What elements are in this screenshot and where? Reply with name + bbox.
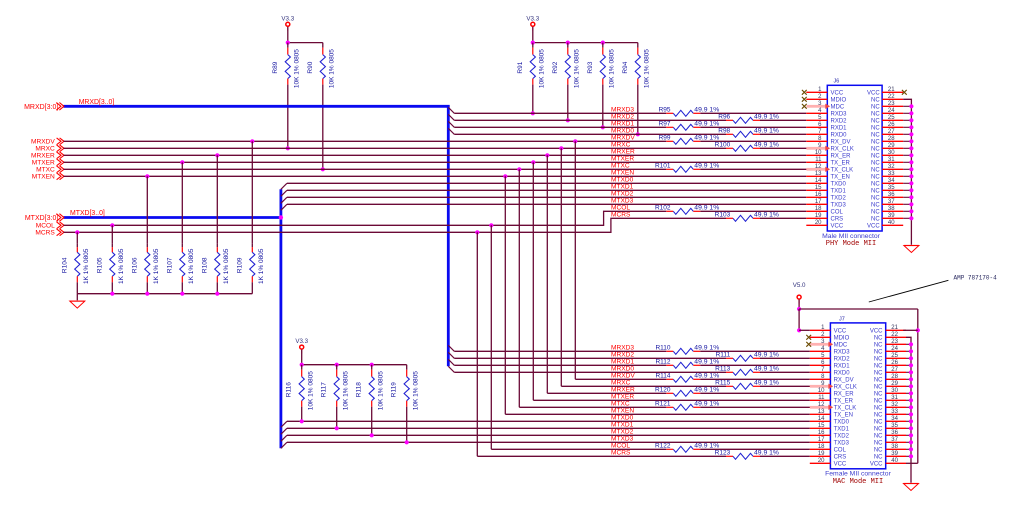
wire MRXDV row (64, 140, 667, 142)
wire NC join (J7) (906, 371, 911, 373)
wire NC join (903, 147, 911, 149)
junction (601, 41, 605, 45)
no-connect X pin3 (J7) (806, 342, 811, 347)
wire MRXD row pin6 (J7) (cont) (700, 364, 810, 366)
svg-text:TX_ER: TX_ER (834, 398, 854, 404)
wire NC join (J7) (906, 448, 911, 450)
wire MTXD row pin15 (287, 189, 806, 191)
resistor R105 (96, 243, 125, 284)
svg-text:10K 1% 0805: 10K 1% 0805 (328, 49, 335, 88)
svg-text:MRXD3: MRXD3 (611, 107, 634, 114)
svg-text:32: 32 (888, 164, 895, 170)
svg-text:NC: NC (871, 132, 880, 138)
svg-text:RXD3: RXD3 (834, 349, 851, 355)
wire MRXD row pin7 (454, 133, 726, 135)
svg-text:MRXC: MRXC (35, 146, 55, 153)
svg-text:RXD0: RXD0 (831, 132, 848, 138)
resistor R118 (356, 365, 385, 411)
svg-text:13: 13 (818, 409, 825, 415)
wire MRXD row pin4 (454, 112, 666, 114)
bus entry (281, 435, 287, 441)
svg-text:MDIO: MDIO (831, 97, 847, 103)
junction (909, 398, 913, 402)
svg-text:VCC: VCC (867, 223, 880, 229)
resistor R110 (655, 345, 719, 355)
junction (215, 153, 219, 157)
svg-text:RXD0: RXD0 (834, 370, 851, 376)
wire NC join (903, 168, 911, 170)
svg-text:R105: R105 (96, 257, 103, 273)
svg-text:J7: J7 (839, 317, 845, 323)
svg-text:10K 1% 0805: 10K 1% 0805 (342, 371, 349, 410)
junction (909, 132, 913, 136)
junction (573, 139, 577, 143)
junction (909, 349, 913, 353)
svg-text:1K 1% 0805: 1K 1% 0805 (258, 248, 265, 284)
wire NC join (J7) (906, 364, 911, 366)
svg-text:NC: NC (874, 426, 883, 432)
svg-text:TXD2: TXD2 (831, 195, 847, 201)
svg-text:RX_CLK: RX_CLK (831, 146, 854, 152)
wire MCRS row (J7) (477, 455, 726, 457)
svg-text:MTXC: MTXC (611, 163, 630, 170)
port MRXD[3:0] (24, 103, 64, 111)
port MRXC (35, 145, 64, 153)
connector J6 pin numbers 1-20 (815, 87, 822, 226)
svg-text:R115: R115 (715, 380, 730, 387)
junction (909, 118, 913, 122)
wire MTXC row (J7) (cont) (700, 406, 810, 408)
connector J7 pin names right (870, 328, 883, 467)
resistor R96 (718, 114, 779, 124)
svg-text:38: 38 (891, 444, 898, 450)
svg-text:TX_EN: TX_EN (834, 412, 853, 418)
junction (909, 447, 913, 451)
bus entry (448, 107, 454, 113)
junction (909, 356, 913, 360)
svg-text:49.9 1%: 49.9 1% (754, 114, 779, 121)
junction (909, 188, 913, 192)
svg-text:49.9 1%: 49.9 1% (754, 380, 779, 387)
wire MTXC row (cont) (700, 168, 806, 170)
bus entry (448, 128, 454, 134)
resistor R97 (659, 121, 720, 131)
junction (110, 292, 114, 296)
junction (145, 292, 149, 296)
junction (909, 342, 913, 346)
bus entry (448, 114, 454, 120)
svg-text:16: 16 (815, 192, 822, 198)
svg-text:NC: NC (871, 111, 880, 117)
junction (909, 146, 913, 150)
junction (909, 419, 913, 423)
svg-text:VCC: VCC (870, 328, 883, 334)
resistor R122 (655, 443, 719, 453)
wire NC join (J7) (906, 434, 911, 436)
svg-text:NC: NC (874, 349, 883, 355)
wire MCOL vertical (490, 225, 492, 449)
svg-text:RX_CLK: RX_CLK (834, 384, 857, 390)
bus entry (281, 421, 287, 427)
wire MRXD row pin4 (J7) (454, 350, 666, 352)
svg-text:1K 1% 0805: 1K 1% 0805 (118, 248, 125, 284)
resistor R120 (655, 387, 719, 397)
junction (909, 209, 913, 213)
svg-text:R112: R112 (655, 359, 670, 366)
wire MCOL row (J7) (cont) (700, 448, 810, 450)
resistor R114 (655, 373, 719, 383)
svg-text:TXD0: TXD0 (831, 181, 847, 187)
svg-text:1K 1% 0805: 1K 1% 0805 (188, 248, 195, 284)
svg-text:COL: COL (834, 447, 847, 453)
svg-text:RX_DV: RX_DV (831, 139, 851, 145)
svg-text:RXD1: RXD1 (831, 125, 848, 131)
connector J7 pin names left (834, 328, 857, 467)
junction (909, 174, 913, 178)
svg-text:17: 17 (818, 437, 825, 443)
resistor R119 (391, 365, 420, 411)
ground (70, 301, 85, 308)
svg-text:49.9 1%: 49.9 1% (694, 135, 719, 142)
port MRXER (31, 152, 64, 160)
junction (909, 202, 913, 206)
svg-text:MTXC: MTXC (36, 167, 55, 174)
svg-text:15: 15 (815, 185, 822, 191)
svg-text:R91: R91 (517, 61, 524, 73)
svg-text:40: 40 (888, 220, 895, 226)
wire NC join (J7) (906, 357, 911, 359)
bus entry (448, 366, 454, 372)
svg-text:49.9 1%: 49.9 1% (754, 352, 779, 359)
svg-text:35: 35 (888, 185, 895, 191)
svg-text:R117: R117 (321, 382, 328, 397)
resistor R93 (587, 43, 616, 89)
svg-text:NC: NC (871, 160, 880, 166)
junction (909, 125, 913, 129)
callout line (869, 280, 949, 302)
wire NC bus (J7) (906, 337, 911, 483)
wire MRXD row pin4 (J7) (cont) (700, 350, 810, 352)
junction (517, 167, 521, 171)
junction (909, 433, 913, 437)
ground (904, 246, 919, 253)
svg-text:MTXD[3:0]: MTXD[3:0] (25, 215, 59, 222)
wire R89 to MRXC (287, 85, 289, 149)
svg-text:R97: R97 (659, 121, 671, 128)
wire R107 top (181, 162, 183, 243)
wire R109 bottom (251, 282, 253, 293)
wire R108 bottom (216, 282, 218, 293)
svg-text:RXD2: RXD2 (834, 356, 851, 362)
svg-text:21: 21 (891, 325, 898, 331)
svg-text:RX_DV: RX_DV (834, 377, 854, 383)
port MCOL (36, 222, 64, 230)
svg-text:31: 31 (888, 157, 895, 163)
wire MRXC row (J7) (cont) (760, 385, 810, 387)
svg-text:26: 26 (891, 360, 898, 366)
svg-text:R119: R119 (391, 382, 398, 397)
junction (286, 146, 290, 150)
wire MTXER row (64, 161, 807, 163)
connector J6 pin names left (831, 90, 854, 229)
svg-text:TXD0: TXD0 (834, 419, 850, 425)
resistor R109 (236, 243, 265, 284)
svg-text:25: 25 (891, 353, 898, 359)
resistor R112 (655, 359, 719, 369)
junction (370, 363, 374, 367)
svg-text:MCRS: MCRS (35, 230, 55, 237)
junction (909, 167, 913, 171)
svg-text:R116: R116 (286, 382, 293, 397)
svg-text:V5.0: V5.0 (793, 282, 806, 289)
wire R106 top (146, 176, 148, 243)
junction (601, 125, 605, 129)
bus MRXD[3..0] (64, 106, 449, 366)
wire R90 to MTXC (322, 85, 324, 170)
junction (475, 230, 479, 234)
svg-text:NC: NC (871, 202, 880, 208)
svg-text:NC: NC (874, 440, 883, 446)
wire MTXEN row (64, 175, 807, 177)
svg-text:TXD1: TXD1 (831, 188, 847, 194)
resistor R107 (166, 243, 195, 284)
wire MTXD row pin16 (J7) (287, 434, 810, 436)
connector J7 pins 21-40 stubs (886, 330, 906, 463)
wire MRXD row pin6 (cont) (700, 126, 806, 128)
junction (909, 111, 913, 115)
wire MRXD row pin4 (cont) (700, 112, 806, 114)
wire MRXD row pin7 (J7) (454, 371, 726, 373)
svg-text:TXD1: TXD1 (834, 426, 850, 432)
wire MRXD row pin5 (cont) (760, 119, 806, 121)
svg-text:NC: NC (874, 419, 883, 425)
svg-text:NC: NC (874, 384, 883, 390)
svg-text:27: 27 (888, 129, 895, 135)
wire NC join (J7) (906, 399, 911, 401)
svg-text:10: 10 (815, 150, 822, 156)
svg-text:MRXC: MRXC (611, 142, 631, 149)
svg-text:49.9 1%: 49.9 1% (694, 373, 719, 380)
wire NC join (J7) (906, 392, 911, 394)
svg-text:10K 1% 0805: 10K 1% 0805 (307, 371, 314, 410)
svg-text:49.9 1%: 49.9 1% (694, 205, 719, 212)
svg-text:VCC: VCC (870, 461, 883, 467)
svg-text:MRXDV: MRXDV (611, 135, 635, 142)
wire V5.0 down (798, 300, 800, 309)
junction (559, 146, 563, 150)
svg-text:Male MII connector: Male MII connector (822, 233, 881, 240)
junction (909, 363, 913, 367)
svg-text:V3.3: V3.3 (295, 338, 308, 345)
svg-text:24: 24 (891, 346, 898, 352)
svg-text:MTXER: MTXER (32, 160, 55, 167)
svg-text:TXD2: TXD2 (834, 433, 850, 439)
wire V3.3 to rail (532, 27, 534, 43)
wire NC join (J7) (906, 413, 911, 415)
svg-text:NC: NC (871, 97, 880, 103)
wire NC join (J7) (906, 350, 911, 352)
svg-text:22: 22 (891, 332, 898, 338)
svg-text:37: 37 (891, 437, 898, 443)
svg-text:27: 27 (891, 367, 898, 373)
svg-text:R103: R103 (715, 212, 731, 219)
junction (909, 391, 913, 395)
port MRXDV (31, 138, 64, 146)
svg-text:35: 35 (891, 423, 898, 429)
svg-text:TX_EN: TX_EN (831, 174, 850, 180)
svg-text:R101: R101 (655, 163, 671, 170)
wire NC bus (J6) (903, 99, 911, 245)
wire MTXD row pin17 (J7) (287, 441, 810, 443)
svg-text:49.9 1%: 49.9 1% (754, 366, 779, 373)
svg-text:12: 12 (818, 402, 825, 408)
svg-text:NC: NC (871, 125, 880, 131)
svg-text:20: 20 (818, 458, 825, 464)
wire VCC right down (917, 309, 919, 463)
wire MRXD row pin7 (cont) (760, 133, 806, 135)
wire MCOL row (J7) (491, 448, 666, 450)
resistor R113 (715, 366, 779, 376)
svg-text:36: 36 (888, 192, 895, 198)
svg-text:MTXD[3..0]: MTXD[3..0] (70, 210, 105, 217)
resistor R108 (201, 243, 230, 284)
svg-text:MTXD0: MTXD0 (611, 177, 634, 184)
svg-text:R118: R118 (356, 382, 363, 397)
ground (904, 484, 919, 491)
bus entry (281, 442, 287, 448)
bus MTXD[3..0] (64, 216, 281, 219)
svg-text:49.9 1%: 49.9 1% (694, 443, 719, 450)
wire NC join (903, 203, 911, 205)
wire VCC to pin40 (906, 462, 918, 464)
wire MCOL row (cont) (700, 210, 806, 212)
junction (797, 307, 801, 311)
svg-text:49.9 1%: 49.9 1% (694, 345, 719, 352)
svg-text:NC: NC (871, 104, 880, 110)
wire MCRS row (cont) (760, 217, 806, 219)
svg-text:R120: R120 (655, 387, 671, 394)
wire MCOL left row (64, 211, 667, 225)
wire NC join (903, 119, 911, 121)
wire NC join (J7) (906, 420, 911, 422)
svg-text:RXD2: RXD2 (831, 118, 848, 124)
svg-text:49.9 1%: 49.9 1% (754, 212, 779, 219)
bus MTXD[3..0] vertical (279, 189, 282, 448)
wire NC join (903, 133, 911, 135)
wire MRXD row pin7 (J7) (cont) (760, 371, 810, 373)
junction (335, 363, 339, 367)
junction (286, 41, 290, 45)
resistor R101 (655, 163, 719, 173)
svg-text:NC: NC (871, 118, 880, 124)
junction (180, 160, 184, 164)
resistor R102 (655, 205, 719, 215)
svg-text:R122: R122 (655, 443, 671, 450)
svg-text:R100: R100 (715, 142, 731, 149)
svg-text:10K 1% 0805: 10K 1% 0805 (608, 49, 615, 88)
wire R107 bottom (181, 282, 183, 293)
svg-text:R110: R110 (655, 345, 670, 352)
junction (909, 454, 913, 458)
wire MRXD row pin6 (454, 126, 666, 128)
svg-text:24: 24 (888, 108, 895, 114)
svg-text:39: 39 (891, 451, 898, 457)
svg-text:1K 1% 0805: 1K 1% 0805 (153, 248, 160, 284)
svg-text:NC: NC (871, 174, 880, 180)
wire MRXD row pin5 (J7) (454, 357, 726, 359)
wire NC join (903, 175, 911, 177)
junction (300, 363, 304, 367)
port MCRS (35, 229, 64, 237)
svg-text:MRXDV: MRXDV (31, 139, 55, 146)
svg-text:34: 34 (888, 178, 895, 184)
svg-text:28: 28 (891, 374, 898, 380)
junction (531, 111, 535, 115)
svg-text:15: 15 (818, 423, 825, 429)
wire MRXDV row (cont) (700, 140, 806, 142)
junction (909, 384, 913, 388)
svg-text:R108: R108 (201, 257, 208, 273)
svg-text:19: 19 (815, 213, 822, 219)
wire MRXC row (J7) (561, 385, 726, 387)
bus entry (448, 121, 454, 127)
svg-text:TX_CLK: TX_CLK (834, 405, 857, 411)
node V3.3 rail (R89/R90) (288, 42, 323, 44)
svg-text:R89: R89 (272, 61, 279, 73)
junction (909, 181, 913, 185)
svg-text:COL: COL (831, 209, 844, 215)
wire MRXC row (64, 147, 727, 149)
svg-text:NC: NC (871, 195, 880, 201)
wire R91 to row (532, 85, 534, 114)
svg-text:R96: R96 (718, 114, 730, 121)
svg-text:MDIO: MDIO (834, 335, 850, 341)
wire NC join (903, 105, 911, 107)
power symbol V5.0 (793, 282, 806, 304)
bus entry (281, 190, 287, 196)
svg-text:MTXER: MTXER (611, 156, 634, 163)
svg-text:10: 10 (818, 388, 825, 394)
wire NC join (903, 189, 911, 191)
svg-text:37: 37 (888, 199, 895, 205)
svg-text:25: 25 (888, 115, 895, 121)
resistor R106 (131, 243, 160, 284)
svg-text:MRXER: MRXER (31, 153, 55, 160)
resistor R94 (622, 43, 651, 89)
svg-text:VCC: VCC (834, 461, 847, 467)
wire MTXD row pin15 (J7) (287, 427, 810, 429)
svg-text:TXD3: TXD3 (834, 440, 850, 446)
wire R108 top (216, 155, 218, 243)
wire NC join (903, 161, 911, 163)
bus entry (448, 359, 454, 365)
junction (909, 377, 913, 381)
svg-text:28: 28 (888, 136, 895, 142)
junction (909, 139, 913, 143)
svg-text:NC: NC (874, 454, 883, 460)
wire MTXEN vertical (504, 176, 506, 414)
svg-text:10K 1% 0805: 10K 1% 0805 (643, 49, 650, 88)
svg-text:NC: NC (874, 433, 883, 439)
svg-text:R99: R99 (659, 135, 671, 142)
svg-text:MAC Mode MII: MAC Mode MII (833, 478, 883, 486)
svg-text:18: 18 (818, 444, 825, 450)
resistor R91 (517, 43, 546, 89)
wire MCRS left row (64, 218, 727, 232)
wire MTXD row pin14 (287, 182, 806, 184)
wire MRXD row pin6 (J7) (454, 364, 666, 366)
svg-text:AMP 787170-4: AMP 787170-4 (954, 274, 998, 281)
